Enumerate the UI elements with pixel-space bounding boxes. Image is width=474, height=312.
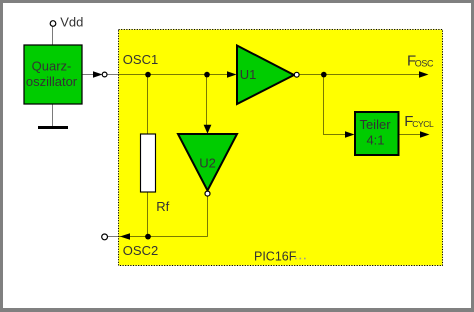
svg-text:4:1: 4:1 [366, 133, 384, 148]
svg-text:U2: U2 [199, 155, 216, 170]
svg-text:PIC16F: PIC16F [254, 249, 297, 263]
svg-text:Quarz-: Quarz- [32, 58, 72, 73]
svg-text:U1: U1 [240, 67, 257, 82]
svg-text:OSC1: OSC1 [123, 52, 158, 67]
svg-text:CYCL: CYCL [412, 119, 434, 129]
svg-text:oszillator: oszillator [26, 74, 78, 89]
svg-text:Vdd: Vdd [60, 15, 83, 30]
svg-text:Teiler: Teiler [359, 117, 391, 132]
svg-text:OSC: OSC [415, 59, 434, 69]
svg-text:Rf: Rf [156, 199, 169, 214]
svg-text:OSC2: OSC2 [123, 243, 158, 258]
